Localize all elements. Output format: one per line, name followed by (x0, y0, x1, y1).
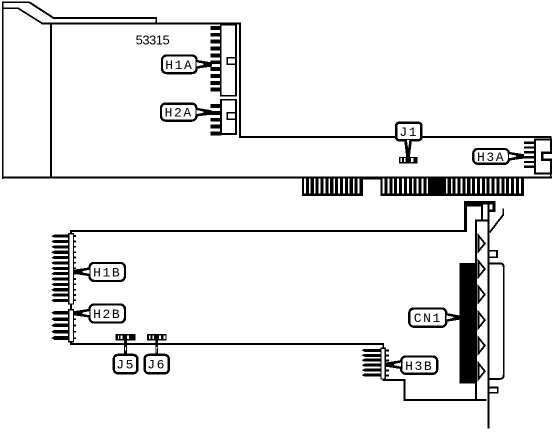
DB connector shell (side view) (490, 263, 504, 379)
svg-text:J6: J6 (147, 358, 166, 373)
top board: bottom edge (2, 176, 552, 178)
header H1B (51, 234, 76, 304)
label CN1 (409, 309, 446, 327)
edge key notch (363, 176, 380, 179)
connector CN1 (black block) (459, 263, 475, 384)
bracket strip (475, 205, 489, 429)
header H2A (210, 100, 236, 136)
header H1A (210, 25, 236, 96)
label H1A (162, 56, 197, 74)
bracket tab upper-right (489, 251, 497, 258)
bottom board: step-down edge (382, 343, 384, 381)
pointer H3B (386, 360, 401, 369)
label J6 (145, 355, 169, 373)
top board: right end edge (550, 136, 552, 178)
pointer CN1 (446, 313, 459, 322)
pointer H1B (74, 267, 89, 276)
bottom board: top edge (70, 230, 467, 232)
jumper J6 (147, 334, 167, 355)
pointer H2B (74, 309, 89, 318)
label H3B (401, 357, 437, 374)
shell diagonal top (490, 209, 504, 233)
top board: top edge (42, 23, 241, 25)
connector H3A (524, 140, 553, 174)
svg-text:H3A: H3A (477, 150, 505, 165)
top board: bracket step down (155, 17, 157, 24)
header H3B (362, 348, 389, 379)
label H3A (473, 149, 509, 165)
header H2B (51, 310, 76, 342)
top board: bracket inner top edge (3, 8, 18, 9)
svg-text:53315: 53315 (136, 33, 170, 48)
jumper J5 (116, 334, 136, 355)
top board: left edge (50, 23, 52, 178)
svg-text:H2A: H2A (165, 106, 193, 121)
bottom board: step bottom edge (382, 379, 405, 381)
svg-text:CN1: CN1 (414, 311, 442, 326)
svg-text:H2B: H2B (93, 307, 121, 322)
svg-text:H3B: H3B (405, 359, 433, 374)
bracket triangles (478, 235, 484, 379)
top board: bracket outer bevel (29, 2, 53, 18)
bottom board: left edge (70, 230, 72, 345)
pointer H2A (196, 108, 212, 117)
svg-text:J1: J1 (399, 125, 418, 140)
svg-text:J5: J5 (116, 358, 135, 373)
top board: bracket top edge (2, 1, 30, 3)
top board: bracket left edge (2, 1, 4, 179)
top board: bracket inner bevel (18, 8, 42, 23)
svg-text:H1A: H1A (165, 58, 193, 73)
top board: bracket outer top line (53, 17, 157, 19)
top board: right edge of upper section (239, 23, 241, 137)
top board: top edge of right section (239, 136, 550, 138)
label H2A (161, 104, 196, 121)
label J5 (114, 355, 138, 373)
bottom board: extension bottom edge (404, 399, 487, 401)
bottom board: second step-down edge (404, 379, 406, 401)
edge connector fingers group 2 (381, 176, 524, 196)
bottom board: bottom edge (70, 343, 384, 345)
jumper J1 (396, 123, 421, 140)
bracket top tab (464, 201, 496, 231)
bracket tab lower-right (489, 388, 498, 393)
pointer H1A (197, 60, 212, 69)
pointer H3A (509, 152, 524, 161)
label H1B (90, 263, 125, 281)
svg-text:H1B: H1B (93, 266, 121, 281)
label H2B (90, 305, 125, 323)
edge connector fingers group 1 (302, 176, 363, 196)
